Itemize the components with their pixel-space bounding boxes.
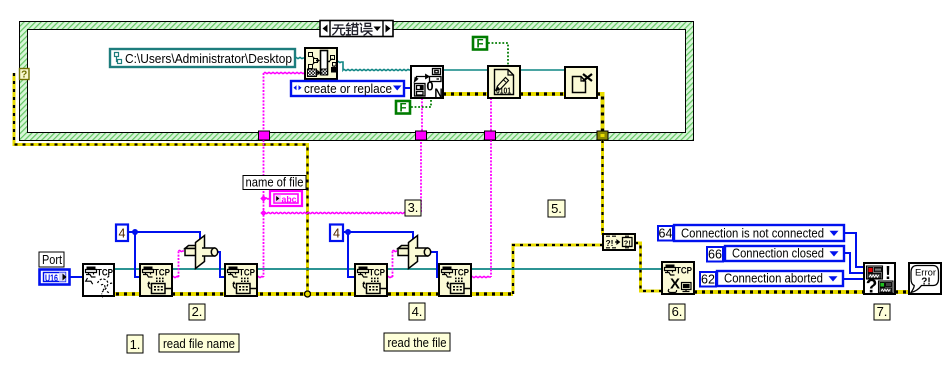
svg-text:4: 4 xyxy=(333,227,340,241)
svg-text:create or replace: create or replace xyxy=(304,81,392,96)
svg-text:1.: 1. xyxy=(130,337,141,352)
svg-text:read the file: read the file xyxy=(388,335,447,350)
svg-text:7.: 7. xyxy=(877,304,888,319)
svg-text:?!: ?! xyxy=(921,277,930,288)
svg-text:4: 4 xyxy=(119,227,126,241)
svg-text:F: F xyxy=(476,39,483,51)
svg-text:U16: U16 xyxy=(45,272,58,284)
svg-text:Connection is not connected: Connection is not connected xyxy=(681,225,824,240)
svg-text:TCP: TCP xyxy=(453,268,470,279)
svg-text:2.: 2. xyxy=(192,304,203,319)
svg-text:F: F xyxy=(399,103,406,115)
svg-text:64: 64 xyxy=(659,227,673,241)
svg-text:TCP: TCP xyxy=(154,268,171,279)
svg-text:Connection aborted: Connection aborted xyxy=(724,270,823,285)
svg-text:3.: 3. xyxy=(408,200,419,215)
svg-text:abc: abc xyxy=(282,194,297,205)
svg-text:TCP: TCP xyxy=(239,268,256,279)
svg-text:66: 66 xyxy=(708,248,722,262)
svg-text:N: N xyxy=(434,88,442,100)
svg-text:Port: Port xyxy=(42,252,62,267)
svg-text:62: 62 xyxy=(701,273,715,287)
svg-text:0101: 0101 xyxy=(496,86,511,95)
svg-text:6.: 6. xyxy=(672,304,683,319)
svg-text:5.: 5. xyxy=(551,201,562,216)
svg-text:?!: ?! xyxy=(624,240,631,247)
svg-text:?: ? xyxy=(866,277,878,298)
svg-text:X: X xyxy=(670,276,680,293)
svg-text:4.: 4. xyxy=(412,304,423,319)
svg-text:Connection closed: Connection closed xyxy=(732,245,824,260)
svg-text:!: ! xyxy=(885,263,891,283)
svg-text:read file name: read file name xyxy=(163,336,235,351)
svg-text:TCP: TCP xyxy=(97,268,114,279)
svg-text:C:\Users\Administrator\Desktop: C:\Users\Administrator\Desktop xyxy=(125,51,292,66)
svg-text:TCP: TCP xyxy=(369,268,386,279)
svg-text:name of file: name of file xyxy=(246,176,304,190)
svg-text:0: 0 xyxy=(426,79,433,94)
svg-text:?: ? xyxy=(21,70,27,81)
svg-text:?!: ?! xyxy=(606,239,614,248)
